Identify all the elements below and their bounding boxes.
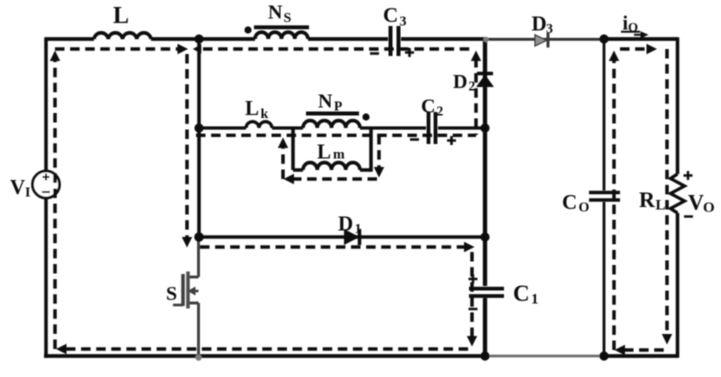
winding N_P (primary) with core bar and polarity dot: [303, 91, 370, 129]
capacitor C3: [370, 3, 414, 57]
current loop: arrow down onto D1 node: [182, 237, 192, 248]
wire: top bus from N_S to C3: [308, 37, 388, 41]
wire: N_P to C2: [360, 126, 426, 129]
diode D2 (on vertical bus, pointing up): [453, 71, 493, 94]
junction: main vertical bus to bottom bus: [480, 351, 489, 360]
svg-text:N: N: [268, 2, 283, 24]
current loop: L_m loop left riser with up arrow (dashed): [281, 148, 284, 179]
svg-text:V: V: [10, 175, 25, 199]
capacitor C1: [469, 275, 539, 310]
inductor L_k (leakage): [245, 96, 272, 128]
svg-text:L: L: [656, 198, 666, 214]
wire: load branch upper (top corner to R_L): [676, 37, 680, 174]
wire: magnetizing branch left drop: [291, 127, 295, 171]
wire: C2 to main vertical bus: [438, 126, 485, 129]
svg-text:2: 2: [437, 104, 444, 119]
wire: bottom bus (ground return): [44, 354, 487, 358]
svg-text:1: 1: [355, 222, 362, 237]
wire: main vertical bus x=485 middle (C2 node to D1 node): [483, 128, 487, 237]
current loop: top-right run from D2 corner back to node A (dashed): [203, 47, 470, 50]
junction: C2 to main vertical bus: [480, 123, 489, 132]
switch S (MOSFET, gray): [166, 239, 202, 361]
inductor L: [94, 3, 151, 39]
svg-text:P: P: [334, 99, 342, 114]
svg-text:3: 3: [546, 22, 553, 37]
svg-text:D: D: [338, 212, 353, 236]
junction: D1 bus at branch: [194, 232, 204, 242]
current loop: D1 bus run y=247 with right arrow (dashed): [200, 245, 465, 248]
winding N_S (secondary) with core bar and polarity dot: [244, 2, 309, 40]
diode D3 (gray): [532, 12, 554, 48]
capacitor C_O: [562, 190, 620, 216]
current loop: primary bus run y=135 (dashed): [196, 134, 476, 137]
junction: C_O branch to bottom bus: [599, 351, 608, 360]
current loop: bottom return run with left arrow (dashed): [66, 347, 472, 350]
svg-text:D: D: [453, 71, 467, 93]
inductor L_m (magnetizing): [293, 140, 371, 171]
svg-text:S: S: [284, 11, 292, 26]
wire: bottom bus under load: [604, 354, 678, 358]
svg-text:L: L: [245, 96, 259, 120]
svg-text:L: L: [113, 3, 129, 29]
wire: top bus from C3 to node of D2 branch: [401, 37, 487, 41]
current loop: D2 riser (dashed): [474, 58, 477, 135]
current loop: output loop right riser with down arrow (dashed): [665, 49, 668, 334]
junction: output node (D3 cathode / C_O / load): [599, 34, 608, 43]
svg-text:L: L: [317, 140, 331, 164]
label: output voltage V_O with polarity: [684, 171, 715, 217]
svg-text:O: O: [703, 200, 715, 216]
wire: vertical branch at node A (top bus down to D1 bus): [197, 39, 201, 237]
svg-text:C: C: [421, 96, 435, 118]
svg-text:C: C: [513, 281, 530, 306]
current loop: arrow left toward node A (return of top-right run): [193, 44, 202, 54]
svg-text:I: I: [25, 186, 30, 201]
wire: left edge upper (V_I to top bus): [44, 37, 48, 171]
wire: top bus left (V+ rail from source to inductor L): [46, 37, 94, 41]
junction: D1 bus to main vertical bus: [480, 232, 489, 241]
resistor R_L: [639, 174, 685, 214]
current loop: L_m loop right riser with down arrow (dashed): [377, 135, 380, 167]
svg-text:R: R: [639, 187, 656, 212]
current loop: arrow up beside D2: [471, 51, 481, 62]
wire: load branch lower (R_L to bottom bus): [676, 213, 680, 358]
diode D1: [338, 212, 362, 246]
svg-text:1: 1: [531, 292, 539, 308]
wire: main vertical bus x=485 upper (top to C2 node): [483, 37, 487, 128]
svg-text:S: S: [166, 283, 177, 305]
current loop: arrow right into node A: [178, 44, 189, 54]
svg-text:O: O: [579, 201, 590, 216]
wire: output filter branch lower (C_O to bottom bus): [603, 202, 606, 356]
current loop: output loop left riser with up arrow (dashed): [612, 60, 615, 350]
source V_I: [10, 171, 60, 201]
wire: main vertical bus x=485 down to C1: [483, 237, 487, 286]
junction: node top of D2 branch (gray): [483, 37, 489, 43]
svg-text:m: m: [333, 148, 345, 163]
wire: output filter branch upper (node to C_O): [603, 39, 606, 191]
wire: top bus from L to N_S: [151, 37, 255, 41]
wire: top bus from output node to load corner: [604, 37, 678, 41]
current loop: arrow up on left riser: [50, 51, 60, 62]
wire: left edge lower (V_I to bottom bus): [44, 198, 48, 358]
svg-text:V: V: [688, 190, 704, 215]
current loop: L_m loop bottom run with left arrow (dashed): [292, 177, 379, 180]
svg-text:k: k: [261, 107, 269, 122]
svg-text:C: C: [562, 190, 577, 214]
capacitor C2: [410, 96, 456, 146]
label: output current i_O with arrow: [621, 13, 649, 39]
junction: node on primary bus at branch: [194, 123, 203, 132]
wire: L_k to N_P: [272, 126, 303, 129]
junction: node A (top bus / branch): [194, 34, 203, 43]
wire: magnetizing branch right drop: [369, 127, 373, 172]
current loop: branch riser beside node A (dashed): [185, 54, 188, 237]
wire: main vertical bus x=485 from C1 to bottom bus: [483, 298, 487, 356]
current loop: input loop top run (dashed): [55, 47, 181, 50]
current loop: input loop left riser (dashed): [53, 60, 56, 349]
svg-text:N: N: [318, 91, 333, 113]
wire: D1 bus y=237: [199, 235, 485, 239]
wire: bottom gray link from C1 to C_O branch: [487, 355, 604, 358]
current loop: C1 riser with down arrow (dashed): [470, 252, 473, 336]
svg-text:C: C: [383, 3, 398, 27]
wire: gray link from D2 node to diode D3: [487, 38, 604, 41]
wire: primary-side bus y=128 from node to L_k: [199, 126, 246, 129]
svg-text:3: 3: [400, 15, 407, 30]
svg-text:D: D: [532, 12, 547, 36]
current loop: output loop top run with right arrow (dashed): [620, 47, 649, 50]
current loop: output loop bottom run with left arrow (dashed): [624, 348, 664, 351]
